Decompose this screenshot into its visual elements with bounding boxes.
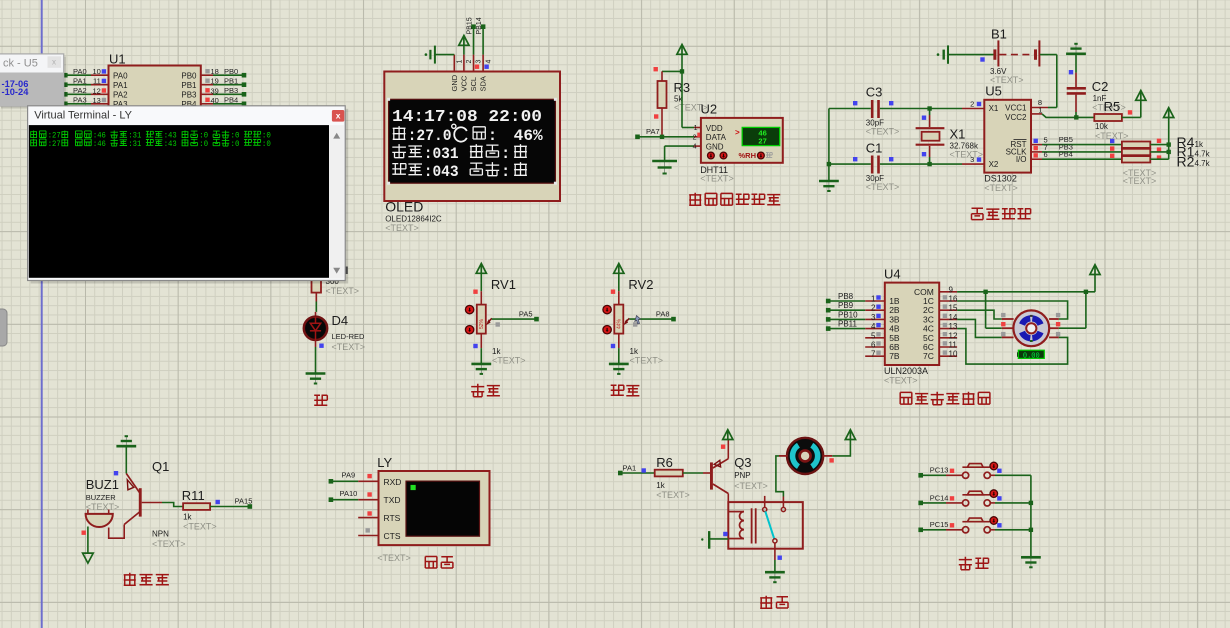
svg-text:VDD: VDD (706, 124, 723, 133)
svg-text:4: 4 (693, 144, 697, 151)
svg-text:CTS: CTS (384, 531, 401, 541)
svg-text:14: 14 (949, 313, 958, 322)
wire PA10 to TXD (332, 499, 359, 501)
svg-text:12: 12 (92, 86, 100, 95)
svg-text:-10-24: -10-24 (2, 87, 30, 97)
indicator R5 right (1128, 110, 1132, 114)
U1 right pin 18 PB0 wire (201, 74, 213, 76)
power arrow above R3 (677, 45, 687, 55)
relay core lines (751, 508, 753, 543)
svg-text:RV1: RV1 (491, 277, 516, 292)
svg-text:<TEXT>: <TEXT> (630, 356, 664, 366)
caption stepper motor (900, 392, 912, 404)
battery dashed link (999, 54, 1034, 56)
wire 3C to motor left bottom (957, 319, 1002, 337)
svg-text:2: 2 (871, 304, 876, 313)
wire Q3 collector to relay (727, 494, 729, 503)
svg-text:PA0: PA0 (73, 67, 87, 76)
svg-text:x: x (52, 58, 56, 67)
svg-text:PA1: PA1 (73, 77, 87, 86)
stepper motor body (1013, 310, 1049, 346)
wire 4C to motor right bottom (957, 329, 1068, 365)
U4 right pin 9 COM (939, 291, 957, 293)
indicator CTS (366, 528, 370, 532)
U1 right pin 39 PB3 wire (201, 93, 213, 95)
inverted ground above C2 (1075, 44, 1077, 54)
svg-text:VCC1: VCC1 (1005, 104, 1027, 113)
svg-text:<TEXT>: <TEXT> (183, 522, 217, 532)
wire PB14 to OLED SDA (482, 27, 484, 55)
wire C3/C1 left vertical to ground (828, 109, 830, 181)
battery left terminal (937, 53, 940, 56)
indicator RV2 wiper (633, 322, 637, 326)
wire resistor to LED D4 (315, 293, 317, 302)
svg-text:X1: X1 (950, 127, 966, 142)
svg-text:D4: D4 (332, 313, 349, 328)
svg-text:<TEXT>: <TEXT> (700, 174, 734, 184)
svg-text:PB8: PB8 (838, 292, 854, 301)
svg-text:1k: 1k (656, 481, 665, 490)
svg-text:11: 11 (949, 341, 958, 350)
svg-text:RXD: RXD (384, 477, 402, 487)
potentiometer RV2 body (618, 291, 620, 304)
terminal PA7 (635, 135, 640, 140)
svg-text:44%: 44% (616, 318, 622, 329)
U4 left pin 3 (865, 318, 885, 320)
wire Q1 base to R11 (142, 502, 162, 504)
indicator Q3 emitter (721, 445, 725, 449)
svg-text:C1: C1 (866, 141, 883, 156)
window shadow clock-U5 (1, 57, 66, 109)
relay contact NO stub (782, 497, 784, 508)
svg-text:1: 1 (871, 295, 876, 304)
svg-text:RV2: RV2 (628, 277, 653, 292)
U4 left pin 1 (865, 300, 885, 302)
chip U4 ULN2003A body (885, 283, 939, 365)
svg-text:X2: X2 (989, 160, 999, 169)
U4 left pin 5 (865, 337, 885, 339)
svg-text:52%: 52% (479, 318, 485, 329)
wire PB11 to U4 pin 4 (830, 328, 866, 330)
svg-text:PA10: PA10 (340, 489, 358, 498)
U4 left pin 2 (865, 309, 885, 311)
indicator C2 top (1069, 70, 1073, 74)
relay switch blade (765, 511, 774, 538)
OLED text line3 (392, 144, 406, 158)
U4 right pin 11 6C (939, 346, 957, 348)
svg-text::: : (488, 127, 497, 145)
motor indicators (1001, 313, 1005, 317)
svg-text:PC13: PC13 (930, 466, 949, 475)
svg-text:GND: GND (706, 142, 724, 151)
wire PB8 to U4 pin 1 (830, 300, 866, 302)
svg-text::0: :0 (231, 140, 240, 149)
resistor R6 (655, 470, 683, 477)
svg-text:2: 2 (466, 60, 473, 64)
U1 left pin 12 PA2 wire (66, 93, 91, 95)
svg-text:BUZ1: BUZ1 (86, 477, 119, 492)
LY screen (406, 481, 480, 536)
svg-text:R11: R11 (182, 488, 205, 503)
svg-text:4.7k: 4.7k (1195, 149, 1211, 158)
OLED pin3 SCL stub (473, 55, 475, 72)
battery B1 cell2 (1034, 49, 1037, 59)
svg-text:1k: 1k (183, 513, 192, 522)
mouse cursor near RV2 (635, 316, 641, 325)
transistor Q1 NPN (139, 488, 142, 516)
svg-text:GND: GND (450, 74, 459, 91)
indicator Q1 emitter (114, 471, 118, 475)
indicator R3 top (654, 67, 658, 71)
svg-text:PA3: PA3 (73, 96, 87, 105)
button PC14 symbol (963, 500, 969, 506)
svg-text:<TEXT>: <TEXT> (656, 490, 690, 500)
svg-text::27: :27 (48, 140, 61, 149)
svg-text:LED-RED: LED-RED (332, 332, 366, 341)
RV1 adjust buttons (465, 305, 473, 313)
indicator stack left (1110, 139, 1114, 143)
svg-text:27: 27 (758, 136, 766, 145)
svg-text:46%: 46% (514, 127, 544, 145)
svg-text:PB9: PB9 (838, 301, 854, 310)
wire PA9 to RXD (332, 480, 359, 482)
OLED ground terminal (425, 53, 428, 56)
wire R11 to PA15 (210, 506, 249, 508)
relay coil ground bar terminal (708, 531, 710, 549)
svg-text:Q3: Q3 (734, 455, 751, 470)
resistor R11 (183, 503, 210, 510)
svg-text:U4: U4 (884, 267, 901, 282)
resistor R3 (658, 81, 667, 108)
U1 left pin 11 PA1 wire (66, 84, 91, 86)
svg-text:<TEXT>: <TEXT> (86, 502, 120, 512)
svg-text:I/O: I/O (1016, 155, 1027, 164)
svg-text:13: 13 (92, 96, 100, 105)
svg-text:X1: X1 (989, 104, 999, 113)
indicator PA1 (642, 468, 646, 472)
svg-text:VCC2: VCC2 (1005, 113, 1027, 122)
relay contact NC stub (764, 496, 766, 507)
ground below relay (774, 572, 776, 582)
button PC15 wire (918, 528, 923, 533)
svg-text:R5: R5 (1104, 99, 1121, 114)
svg-text:Virtual Terminal - LY: Virtual Terminal - LY (34, 110, 132, 122)
svg-text:Q1: Q1 (152, 459, 169, 474)
wire R3 top to power (662, 70, 682, 72)
capacitor C2 (1075, 73, 1077, 88)
relay body (728, 502, 803, 549)
svg-text:16: 16 (949, 295, 958, 304)
U2 buttons (708, 152, 715, 159)
RV2 adjust buttons (603, 305, 611, 313)
potentiometer RV1 body (480, 291, 482, 304)
svg-text:U1: U1 (109, 52, 126, 67)
wire buzzer left to down arrow (87, 527, 89, 554)
power arrow motor COM (1090, 265, 1100, 275)
indicator RV1 wiper (496, 322, 500, 326)
caption clock module (972, 208, 984, 219)
indicator buzzer (82, 531, 86, 535)
LED D4 (304, 317, 327, 340)
OLED pin4 SDA stub (482, 55, 484, 72)
svg-text:PA2: PA2 (73, 86, 87, 95)
wire to battery (948, 54, 994, 56)
wire 2C to motor left top (957, 310, 1002, 319)
wire COM to motor left center (985, 292, 987, 328)
svg-text:PA1: PA1 (113, 81, 128, 90)
svg-text:C2: C2 (1092, 79, 1109, 94)
svg-text:10: 10 (92, 67, 100, 76)
svg-text:4: 4 (485, 60, 492, 64)
svg-text:PB11: PB11 (838, 320, 858, 329)
ground below U2 (664, 161, 666, 173)
svg-text:PB0: PB0 (224, 67, 238, 76)
svg-text:7B: 7B (889, 351, 900, 361)
svg-text:C3: C3 (866, 85, 883, 100)
wires resistor stack to power bus (1150, 144, 1168, 146)
svg-text:<TEXT>: <TEXT> (492, 356, 526, 366)
svg-text:<TEXT>: <TEXT> (1123, 176, 1157, 186)
svg-text:PB4: PB4 (1059, 150, 1073, 159)
svg-text:<TEXT>: <TEXT> (884, 376, 918, 386)
wire C1 row to U5 X2 pin3 (930, 163, 962, 165)
power arrow stack (1164, 108, 1174, 118)
svg-text:<TEXT>: <TEXT> (332, 342, 366, 352)
svg-text:NPN: NPN (152, 530, 169, 539)
ground below D4 (315, 374, 317, 384)
LY pin RTS (358, 517, 378, 519)
svg-text:SDA: SDA (479, 76, 488, 91)
svg-text:ck - U5: ck - U5 (3, 58, 38, 70)
U2 display (742, 127, 780, 145)
OLED text line2 (393, 126, 406, 139)
svg-text::: : (501, 145, 510, 163)
RV1 bottom to ground (480, 334, 482, 349)
svg-text:PA1: PA1 (623, 464, 637, 473)
U1 right pin 40 PB4 wire (201, 103, 213, 105)
svg-text:DATA: DATA (706, 133, 727, 142)
svg-text:2: 2 (970, 100, 974, 109)
caption wen-shi-du sensor (689, 193, 701, 206)
button PC13 toggle (990, 462, 998, 470)
svg-text:SCL: SCL (469, 77, 478, 92)
svg-text:40: 40 (211, 96, 219, 105)
sheet border line (41, 0, 43, 628)
svg-text:OLED: OLED (385, 199, 423, 215)
caption lamp (314, 395, 327, 405)
indicator relay common (778, 556, 782, 560)
svg-text:PA7: PA7 (646, 127, 660, 136)
svg-text:PB3: PB3 (224, 86, 238, 95)
module LY body (379, 471, 490, 545)
wire crystal row to U5 X1 pin2 (930, 108, 962, 110)
power arrow above RV2 (614, 264, 624, 274)
power arrow fan (845, 430, 855, 440)
svg-text:LY: LY (377, 455, 392, 470)
wire U5 pin 6 net PB4 (1031, 158, 1042, 160)
svg-text:%RH: %RH (739, 151, 757, 160)
svg-text:PNP: PNP (734, 471, 750, 480)
down arrow terminal (83, 553, 94, 563)
svg-text:10k: 10k (1095, 122, 1109, 131)
window shadow virtual terminal (31, 109, 349, 284)
resistor R4 (1122, 142, 1150, 148)
caption 光强 (611, 385, 624, 395)
button PC14 toggle (990, 490, 998, 498)
terminal PA1 (618, 471, 623, 476)
buttons common bus (1030, 475, 1032, 557)
transistor Q3 PNP (710, 462, 713, 489)
svg-text:<TEXT>: <TEXT> (866, 127, 900, 137)
wire PC14 to bus (990, 502, 995, 504)
svg-text::0: :0 (199, 140, 208, 149)
window clock-U5 (0, 54, 64, 106)
wire COM to motor right center (1085, 292, 1087, 328)
svg-text:PA5: PA5 (519, 309, 533, 318)
caption buttons (959, 557, 972, 570)
svg-text:U5: U5 (985, 84, 1002, 99)
svg-text:3: 3 (871, 313, 876, 322)
U4 right pin 16 1C (939, 300, 957, 302)
OLED module body (384, 72, 560, 202)
svg-text:1: 1 (694, 125, 698, 132)
indicator OLED pin4 (484, 65, 488, 69)
svg-text::27.0: :27.0 (408, 127, 452, 145)
resistor R2 (1122, 156, 1150, 162)
U4 left pin 7 (865, 355, 885, 357)
OLED pin2 VCC stub (463, 55, 465, 72)
svg-text:RTS: RTS (384, 513, 401, 523)
svg-text:10: 10 (949, 350, 958, 359)
svg-text:PA15: PA15 (235, 496, 253, 505)
wire U2 GND to ground (694, 145, 701, 147)
power arrow above RV1 (476, 264, 486, 274)
svg-text:4: 4 (871, 322, 876, 331)
svg-text::: : (501, 163, 510, 181)
wire PB10 to U4 pin 3 (830, 318, 866, 320)
OLED VCC power arrow (459, 36, 469, 46)
LY pin CTS (358, 535, 378, 537)
svg-text:3: 3 (970, 155, 974, 164)
button PC14 wire (918, 501, 923, 506)
U1 right pin 19 PB1 wire (201, 84, 213, 86)
resistor R1 (1122, 149, 1150, 155)
left edge scrollbar thumb (0, 309, 7, 346)
OLED screen (389, 99, 556, 183)
terminal screen (29, 125, 329, 278)
resistor 300ohm partially hidden (312, 262, 322, 293)
svg-text::31: :31 (128, 140, 141, 149)
wire relay common to ground (774, 560, 776, 572)
wire R5 to power arrow (1122, 116, 1141, 118)
motor rpm display (1017, 352, 1020, 357)
indicator PA15 (216, 500, 220, 504)
svg-text:1: 1 (1038, 106, 1042, 115)
R3 bottom stub (661, 108, 663, 137)
button PC13 symbol (963, 472, 969, 478)
wire PB15 to OLED SCL (473, 27, 475, 55)
terminal scrollbar (329, 125, 344, 279)
U4 right pin 15 2C (939, 309, 957, 311)
wire PA1 to R6 (621, 472, 655, 474)
inverted ground above Q1 (125, 437, 127, 447)
svg-text:15: 15 (949, 304, 958, 313)
OLED text line4 (392, 164, 406, 175)
U1 left pin 13 PA3 wire (66, 103, 91, 105)
wire PC13 to bus (990, 474, 995, 476)
indicator RV2 top (611, 290, 615, 294)
svg-text:PB4: PB4 (224, 96, 238, 105)
indicator RTS (367, 511, 371, 515)
svg-text:1k: 1k (1195, 140, 1204, 149)
LY pin TXD (358, 499, 378, 501)
svg-text:PC14: PC14 (930, 493, 949, 502)
U4 left pin 4 (865, 328, 885, 330)
svg-text:13: 13 (949, 322, 958, 331)
wire R6 to Q3 base (683, 472, 703, 474)
svg-text:7C: 7C (923, 351, 934, 361)
svg-text:PA8: PA8 (656, 309, 670, 318)
svg-text:PA2: PA2 (113, 91, 128, 100)
svg-text:6: 6 (1044, 150, 1048, 159)
wire PB9 to U4 pin 2 (830, 309, 866, 311)
wire COM rail (957, 291, 1095, 293)
U4 right pin 13 4C (939, 328, 957, 330)
U4 right pin 14 3C (939, 318, 957, 320)
svg-text:BUZZER: BUZZER (86, 493, 117, 502)
svg-text:PB1: PB1 (224, 77, 238, 86)
svg-text:DS1302: DS1302 (984, 174, 1017, 184)
svg-text:x: x (336, 110, 341, 120)
indicator battery (980, 57, 984, 61)
wire Q1 collector to buzzer (109, 525, 125, 539)
indicator stack right (1157, 139, 1161, 143)
svg-text:B1: B1 (991, 27, 1007, 42)
svg-text:R6: R6 (656, 455, 673, 470)
svg-text:0.00: 0.00 (1023, 352, 1040, 360)
svg-text:PB3: PB3 (181, 91, 197, 100)
svg-text:<TEXT>: <TEXT> (152, 539, 186, 549)
svg-text:PC15: PC15 (930, 520, 949, 529)
U4 right pin 12 5C (939, 337, 957, 339)
svg-text:1: 1 (457, 60, 464, 64)
svg-text:PB0: PB0 (181, 72, 197, 81)
wire battery to U5 VCC1 (1040, 54, 1057, 56)
wire fan right to power (823, 455, 832, 457)
svg-text:>: > (735, 128, 740, 137)
indicator fan (829, 458, 833, 462)
caption fan (760, 596, 772, 609)
indicator R3 bottom (654, 114, 658, 118)
svg-text:14:17:08 22:00: 14:17:08 22:00 (392, 108, 542, 127)
svg-text:2: 2 (693, 134, 697, 141)
svg-text:PB15: PB15 (467, 17, 474, 34)
wire VCC to U2 VDD (681, 71, 683, 127)
indicator OLED pin3 (475, 65, 479, 69)
svg-text:PB1: PB1 (181, 81, 197, 90)
U4 left pin 6 (865, 346, 885, 348)
relay coil (728, 511, 744, 513)
svg-text:PA0: PA0 (113, 72, 128, 81)
svg-text:19: 19 (211, 77, 219, 86)
svg-text:3: 3 (476, 60, 483, 64)
svg-text:39: 39 (211, 86, 219, 95)
U1 left pin 10 PA0 wire (66, 74, 91, 76)
RV1 wiper wire (486, 319, 491, 325)
svg-text:<TEXT>: <TEXT> (385, 223, 419, 233)
svg-text:<TEXT>: <TEXT> (326, 286, 360, 296)
relay common contact (773, 539, 777, 543)
